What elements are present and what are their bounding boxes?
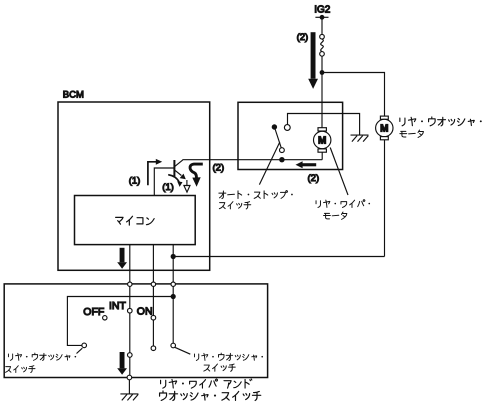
auto-stop switch: [272, 124, 285, 162]
junction node C: [171, 294, 176, 299]
current flow arrow (2) S-curve: [190, 164, 203, 187]
wire switch to ground: [128, 380, 130, 394]
wire transistor collector to auto-stop switch: [183, 159, 323, 161]
svg-text:(2): (2): [297, 32, 309, 43]
wire base to microcomputer: [154, 168, 173, 196]
junction node A: [320, 70, 325, 75]
wire node C to left washer contact: [67, 297, 173, 346]
wire rear washer motor to node B: [384, 140, 386, 257]
wire W1 microcomputer to switch: [129, 245, 131, 285]
washer switch contact right: [171, 343, 176, 348]
svg-text:OFF: OFF: [83, 306, 104, 318]
label rear washer motor line2: [400, 130, 424, 137]
rear wiper motor unit box: [238, 102, 343, 169]
svg-text:ON: ON: [137, 306, 153, 318]
svg-text:(1): (1): [129, 176, 141, 187]
emitter output open triangle: [184, 180, 190, 192]
ground G2: [120, 394, 138, 401]
wire W3 microcomputer to switch: [172, 245, 174, 285]
wire node B to washer motor: [173, 256, 384, 258]
wire W2 microcomputer to switch: [152, 245, 154, 285]
ground G1: [351, 135, 369, 142]
INT position contact: [128, 308, 133, 313]
svg-text:(2): (2): [213, 163, 225, 174]
current flow arrow (1) curved: [168, 175, 182, 187]
label switch assembly line1: [161, 379, 252, 388]
label auto-stop switch line2: [219, 202, 250, 209]
svg-text:IG2: IG2: [314, 5, 331, 16]
terminal pin T1: [128, 282, 132, 286]
rear wiper motor M1: [314, 128, 331, 153]
current flow arrow (2) into wiper motor: [296, 161, 317, 168]
BCM box: [58, 102, 210, 270]
svg-text:M: M: [380, 124, 388, 135]
washer switch contact left: [82, 343, 87, 348]
microcomputer box: [75, 196, 196, 245]
wire fuse to node A: [321, 56, 323, 72]
current flow arrow (2) on IG2 feed: [308, 32, 318, 89]
wire wiper motor to collector line: [321, 152, 323, 160]
label rear washer switch right line1: [194, 353, 263, 360]
current flow arrow (1) inside BCM: [117, 248, 127, 269]
wiper common contact on W1: [128, 353, 133, 358]
pointer auto-stop switch label: [259, 142, 279, 185]
label auto-stop switch line1: [219, 191, 293, 199]
rear wiper and washer switch box: [4, 284, 267, 378]
pointer right washer switch label: [175, 347, 191, 354]
terminal pin T3: [171, 282, 175, 286]
terminal pin T2: [151, 282, 155, 286]
wire node A to rear wiper motor: [321, 73, 323, 128]
label rear washer motor line1: [400, 117, 482, 126]
wire W3 inside switch box: [172, 286, 174, 345]
svg-text:(1): (1): [162, 182, 174, 193]
auto-stop fixed contact and wire to ground: [284, 114, 359, 136]
svg-text:(2): (2): [308, 173, 320, 184]
junction node B: [171, 254, 176, 259]
wire W2 inside switch box: [152, 286, 154, 348]
svg-text:INT: INT: [109, 300, 127, 312]
pointer rear wiper motor label: [330, 148, 348, 196]
fuse F1: [320, 34, 325, 56]
wire IG2 to fuse: [321, 17, 323, 34]
wiper switch contact W2 end: [151, 346, 156, 351]
transistor Q1: [174, 160, 185, 179]
svg-text:M: M: [318, 136, 326, 147]
ON position contact: [151, 315, 156, 320]
label rear washer switch left line1: [8, 353, 76, 360]
label rear washer switch right line2: [204, 364, 235, 371]
ground terminal pin: [127, 375, 132, 380]
label rear wiper motor line2: [324, 212, 347, 219]
wire node A to rear washer motor: [322, 73, 385, 117]
label switch assembly line2: [160, 391, 261, 400]
signal arrow (1) base drive: [148, 159, 162, 185]
current flow arrow (1) inside switch: [117, 352, 127, 375]
wire W1 inside switch box: [129, 286, 131, 377]
svg-text:BCM: BCM: [63, 90, 84, 101]
label rear washer switch left line2: [5, 366, 35, 373]
label microcomputer: [116, 216, 155, 225]
pointer left washer switch label: [77, 348, 83, 353]
OFF position contact: [103, 316, 107, 320]
terminal IG2: [315, 15, 328, 20]
rear washer motor M2: [376, 116, 393, 140]
label rear wiper motor line1: [316, 200, 370, 208]
